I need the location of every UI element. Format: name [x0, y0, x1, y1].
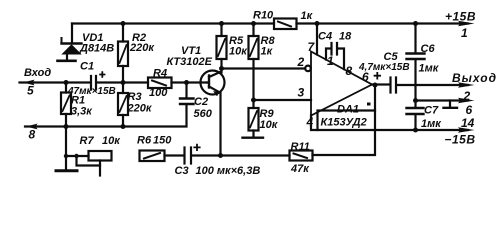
svg-text:18: 18 [339, 31, 352, 43]
svg-text:КТ3102Е: КТ3102Е [167, 56, 213, 68]
svg-text:4: 4 [306, 115, 314, 129]
svg-text:6: 6 [466, 103, 473, 117]
svg-text:C6: C6 [421, 43, 436, 55]
svg-text:Выход: Выход [452, 71, 497, 85]
svg-text:220к: 220к [127, 103, 153, 115]
svg-text:100 мк×6,3В: 100 мк×6,3В [196, 165, 261, 177]
svg-text:3: 3 [298, 86, 305, 100]
svg-text:−15В: −15В [445, 133, 476, 147]
svg-text:1: 1 [327, 54, 334, 68]
svg-text:10к: 10к [229, 46, 248, 58]
svg-text:Вход: Вход [24, 67, 51, 79]
svg-text:R3: R3 [128, 91, 142, 103]
svg-text:220к: 220к [129, 42, 155, 54]
svg-text:1: 1 [461, 26, 468, 40]
svg-text:R4: R4 [153, 68, 167, 80]
svg-text:C4: C4 [318, 31, 332, 43]
svg-text:R6: R6 [137, 135, 152, 147]
svg-text:100: 100 [149, 87, 168, 99]
svg-text:150: 150 [153, 135, 172, 147]
svg-text:Д814В: Д814В [79, 43, 114, 55]
svg-text:C3: C3 [175, 165, 189, 177]
svg-text:560: 560 [194, 108, 213, 120]
svg-text:3,3к: 3,3к [71, 106, 93, 118]
svg-text:2: 2 [463, 89, 471, 103]
svg-text:1к: 1к [261, 46, 274, 58]
svg-text:8: 8 [29, 128, 36, 142]
svg-text:R7: R7 [80, 135, 95, 147]
svg-text:14: 14 [461, 116, 475, 130]
svg-text:C2: C2 [194, 96, 208, 108]
svg-text:R11: R11 [291, 141, 310, 153]
svg-text:47к: 47к [290, 163, 310, 175]
svg-text:К153УД2: К153УД2 [321, 117, 367, 129]
svg-text:+15В: +15В [445, 10, 476, 24]
svg-text:1мк: 1мк [419, 63, 440, 75]
svg-text:2: 2 [297, 55, 305, 69]
svg-text:4,7мк×15В: 4,7мк×15В [358, 62, 410, 73]
svg-text:5: 5 [27, 84, 34, 98]
svg-text:1к: 1к [301, 10, 314, 22]
svg-text:R10: R10 [253, 10, 274, 22]
svg-text:10к: 10к [102, 135, 121, 147]
svg-text:1мк: 1мк [421, 118, 442, 130]
svg-text:10к: 10к [260, 119, 279, 131]
svg-text:C1: C1 [80, 61, 94, 73]
svg-text:DA1: DA1 [337, 104, 359, 116]
svg-text:8: 8 [346, 64, 353, 78]
svg-text:C7: C7 [424, 105, 439, 117]
